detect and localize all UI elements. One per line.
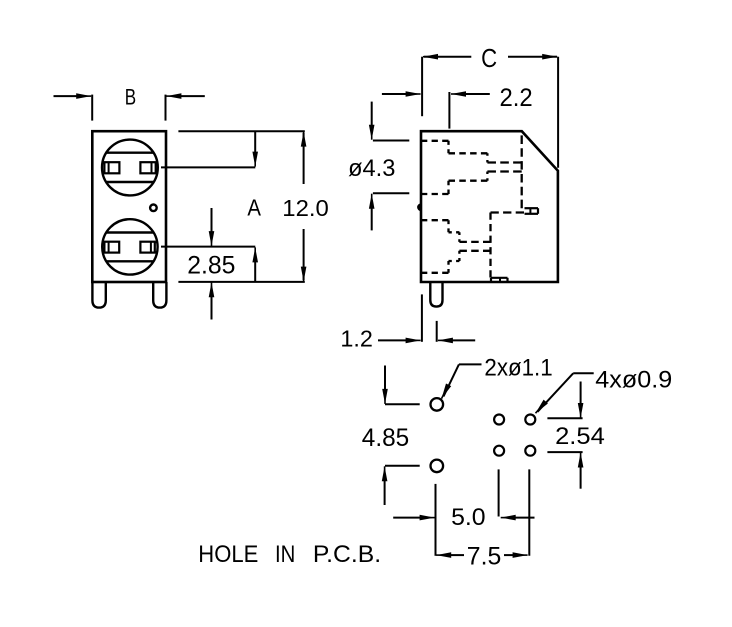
svg-text:B: B: [125, 85, 136, 110]
dimension 7.5 left arrow: [449, 554, 464, 556]
dimension bottom extension line: [178, 281, 304, 283]
PCB hole big circle top 2x dia1.1: [431, 398, 444, 411]
dimension dia4.3 upper extension line: [373, 140, 409, 142]
dimension B right arrow: [177, 95, 205, 97]
bottom lead exit tab: [491, 277, 508, 279]
dimension dia4.3 upper arrow: [371, 102, 373, 129]
dimension 4.85 lower extension line: [385, 465, 420, 467]
dimension dia4.3 lower extension line: [373, 192, 409, 194]
dimension top extension line: [178, 130, 304, 132]
dimension 7.5 right arrow: [504, 554, 516, 556]
svg-text:4xø0.9: 4xø0.9: [595, 367, 672, 394]
upper LED hidden flange right edge lower dashed: [447, 181, 449, 194]
dimension 1.2 left arrow: [378, 339, 408, 341]
svg-text:2xø1.1: 2xø1.1: [484, 355, 552, 382]
PCB hole small circle row2 left 4x dia0.9: [494, 446, 504, 456]
upper LED right lead frame: [140, 162, 155, 173]
lower LED hidden lead top dashed line: [459, 241, 490, 243]
upper LED lens circle: [102, 140, 158, 196]
dimension 5.0 left arrow: [393, 517, 422, 519]
dimension 1.2 right arrow: [451, 339, 475, 341]
PCB hole small circle row1 left 4x dia0.9: [494, 415, 504, 425]
side view polarity mark bump: [418, 204, 421, 211]
lower LED lens circle: [102, 219, 157, 274]
svg-text:HOLE: HOLE: [198, 541, 258, 568]
dimension 2.54 upper extension line: [547, 417, 582, 419]
dimension A upper arrow: [254, 131, 256, 156]
dimension 4.85 lower arrow: [384, 477, 386, 505]
dimension 2.85 lower arrow: [211, 293, 213, 320]
dimension C right extension line: [557, 57, 559, 168]
svg-text:1.2: 1.2: [340, 325, 373, 351]
dimension A lower arrow: [254, 258, 256, 282]
lower LED hidden flange bottom dashed line: [421, 272, 449, 274]
dimension C right arrow: [508, 56, 557, 58]
dimension 4.85 upper extension line: [385, 403, 420, 405]
lower LED hidden flange top dashed line: [421, 219, 449, 221]
side view mounting leg: [430, 282, 442, 307]
dimension 4.85 upper arrow: [384, 366, 386, 394]
lower LED hidden body bottom dashed line: [449, 260, 460, 262]
dimension C left arrow: [424, 56, 471, 58]
front view left mounting leg: [92, 282, 105, 308]
svg-text:12.0: 12.0: [282, 195, 329, 221]
PCB hole small circle row2 right 4x dia0.9: [525, 446, 535, 456]
svg-text:P.C.B.: P.C.B.: [313, 541, 381, 568]
upper LED left lead frame: [104, 162, 119, 173]
lower LED lens bottom chord line: [106, 260, 153, 262]
dimension 1.2 left extension line: [421, 294, 423, 341]
lower LED lead centerline extension: [161, 246, 255, 248]
svg-text:4.85: 4.85: [362, 424, 409, 452]
upper LED lens top chord line: [106, 151, 153, 153]
lower LED right lead frame: [140, 242, 154, 253]
lower LED hidden body right edge upper dashed: [458, 232, 460, 242]
upper LED lead centerline extension: [161, 166, 255, 168]
svg-text:2.85: 2.85: [187, 252, 235, 280]
hole pattern small circle left column extension line: [498, 469, 500, 516]
upper LED hidden body right edge lower dashed: [486, 172, 488, 181]
dimension B left arrow: [54, 95, 82, 97]
upper LED hidden body bottom dashed line: [449, 180, 488, 182]
svg-text:C: C: [481, 45, 497, 73]
upper LED hidden flange right edge upper dashed: [447, 141, 449, 154]
front view right mounting leg: [153, 282, 166, 308]
dimension 2.85 upper arrow: [211, 208, 213, 236]
upper LED hidden lead bottom dashed line: [487, 170, 521, 172]
hole pattern small circle right column extension line: [528, 469, 530, 555]
lower LED lens top chord line: [106, 231, 153, 233]
upper LED hidden body top dashed line: [449, 152, 488, 154]
hidden lead slot vertical dashed line: [489, 213, 491, 278]
dimension 2.54 upper arrow: [580, 382, 582, 408]
svg-text:2.2: 2.2: [500, 84, 533, 112]
dimension C left extension line: [421, 57, 423, 116]
hidden lead slot horizontal dashed line: [491, 211, 525, 213]
upper LED hidden body right edge upper dashed: [486, 153, 488, 162]
hole pattern big circle column extension line: [435, 484, 437, 556]
dimension B left extension line: [91, 95, 93, 121]
dimension 2.2 left arrow: [382, 93, 408, 95]
dimension 2.54 lower arrow: [580, 463, 582, 489]
side lead exit tab: [525, 207, 539, 209]
lower LED hidden flange right edge lower dashed: [447, 261, 449, 273]
svg-text:IN: IN: [275, 541, 295, 568]
front view body outline: [92, 131, 166, 282]
side view body outline with chamfered corner: [421, 131, 558, 282]
dimension 1.2 right extension line: [436, 321, 438, 342]
svg-text:A: A: [247, 195, 261, 221]
dimension 5.0 right arrow: [513, 517, 535, 519]
dimension dia4.3 lower arrow: [371, 205, 373, 231]
dimension 2.2 right arrow: [462, 93, 490, 95]
PCB hole big circle bottom 2x dia1.1: [431, 460, 444, 473]
leader line for 4x dia0.9: [573, 372, 594, 374]
lower LED hidden body right edge lower dashed: [458, 251, 460, 261]
svg-text:7.5: 7.5: [467, 542, 502, 570]
svg-text:2.54: 2.54: [555, 423, 605, 450]
upper LED lens bottom chord line: [106, 181, 154, 183]
lower LED hidden body top dashed line: [449, 231, 460, 233]
lower LED hidden flange right edge upper dashed: [447, 220, 449, 232]
upper LED hidden flange bottom dashed line: [421, 193, 449, 195]
upper LED hidden lead top dashed line: [487, 161, 521, 163]
lower LED hidden lead bottom dashed line: [459, 250, 490, 252]
lower LED left lead frame: [104, 242, 119, 253]
hidden internal wall vertical dashed line: [521, 135, 523, 208]
PCB hole small circle row1 right 4x dia0.9: [525, 415, 535, 425]
leader line for 2x dia1.1: [459, 363, 482, 365]
dimension 2.54 lower extension line: [547, 451, 582, 453]
upper LED hidden flange top dashed line: [421, 140, 449, 142]
front view polarity mark small circle: [150, 205, 157, 212]
svg-text:ø4.3: ø4.3: [348, 155, 395, 182]
svg-text:5.0: 5.0: [451, 504, 486, 531]
dimension 2.2 extension line: [448, 92, 450, 129]
dimension 12.0 line with arrows: [303, 133, 305, 184]
dimension B right extension line: [165, 95, 167, 121]
